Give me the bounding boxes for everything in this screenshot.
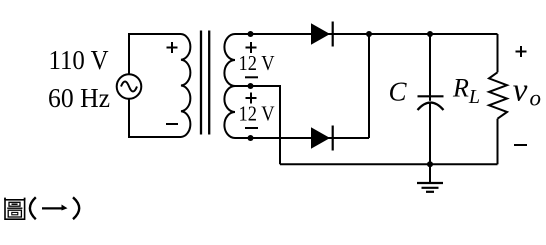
svg-text:110 V: 110 V [49,45,109,75]
plus primary [167,42,178,53]
node secondary top terminal [248,31,254,37]
caption paren open [30,197,36,219]
minus secondary upper [245,76,258,78]
wire capacitor top [429,34,431,101]
node capacitor bottom / ground [427,161,433,167]
node D2 output on top rail [366,31,372,37]
transformer primary winding [181,34,190,137]
resistor RL zigzag [489,72,507,118]
diode D1 [311,22,333,47]
transformer secondary winding upper [224,34,235,86]
node secondary center tap [248,83,254,89]
wire capacitor bottom [429,103,431,165]
transformer secondary winding lower [224,86,235,138]
plus output [516,46,527,57]
caption paren close [73,197,79,219]
svg-text:12 V: 12 V [239,51,275,75]
wire bottom rail [280,163,498,165]
transformer core [201,31,209,135]
wire primary left bottom [129,99,181,137]
caption glyph 圖 [5,198,25,220]
wire D2 cathode up to top rail [368,34,370,138]
wire right branch bottom [497,119,499,165]
svg-text:C: C [389,76,408,106]
minus output [514,144,527,146]
node secondary bottom terminal [248,135,254,141]
plus secondary upper [246,42,257,53]
wire center tap [235,86,280,164]
minus secondary lower [245,127,258,129]
minus primary [166,123,178,125]
wire top rail [235,33,498,35]
wire secondary bottom to diode D2 [235,137,369,139]
node capacitor top [427,31,433,37]
wire primary left top [129,34,181,74]
svg-text:60 Hz: 60 Hz [48,83,110,113]
capacitor C plates [418,95,444,97]
plus secondary lower [246,93,257,104]
caption stroke 一 [42,205,68,211]
svg-text:12 V: 12 V [239,102,275,126]
diode D2 [311,126,333,151]
AC source VS [117,74,142,99]
wire right branch top [497,34,499,72]
ground [417,164,443,192]
